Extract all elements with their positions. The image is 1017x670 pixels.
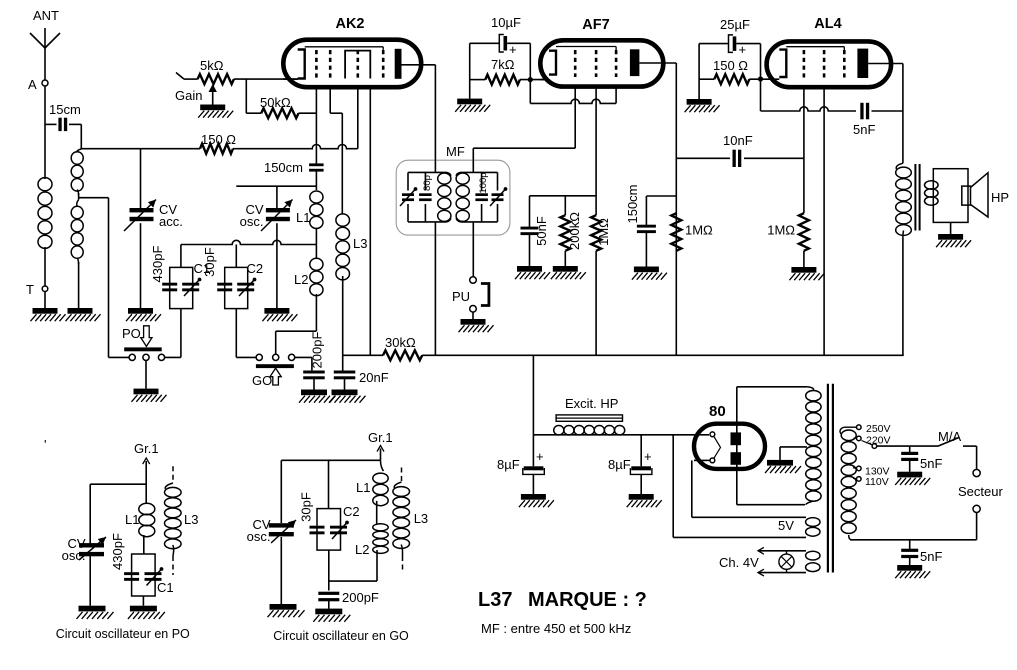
svg-text:5nF: 5nF: [920, 456, 942, 471]
svg-text:10nF: 10nF: [723, 133, 753, 148]
svg-text:8µF: 8µF: [497, 457, 520, 472]
svg-text:430pF: 430pF: [150, 246, 165, 283]
svg-text:L37: L37: [478, 589, 512, 611]
svg-text:AL4: AL4: [814, 16, 841, 32]
svg-text:1MΩ: 1MΩ: [685, 223, 713, 238]
svg-text:acc.: acc.: [159, 214, 183, 229]
svg-text:': ': [44, 437, 46, 452]
svg-text:+: +: [509, 42, 517, 57]
svg-text:+: +: [536, 449, 544, 464]
svg-text:150 Ω: 150 Ω: [201, 132, 236, 147]
svg-text:MARQUE : ?: MARQUE : ?: [528, 589, 647, 611]
svg-text:50kΩ: 50kΩ: [260, 95, 291, 110]
svg-text:PO: PO: [122, 326, 141, 341]
svg-text:L3: L3: [414, 511, 428, 526]
svg-text:osc.: osc.: [247, 529, 271, 544]
svg-text:5kΩ: 5kΩ: [200, 58, 224, 73]
svg-text:30pF: 30pF: [202, 247, 217, 277]
svg-text:150cm: 150cm: [625, 184, 640, 223]
svg-text:10µF: 10µF: [491, 15, 521, 30]
svg-text:L3: L3: [353, 236, 367, 251]
svg-text:AF7: AF7: [582, 17, 609, 33]
svg-text:250V: 250V: [866, 423, 891, 435]
svg-text:7kΩ: 7kΩ: [491, 57, 515, 72]
svg-text:GO: GO: [252, 373, 272, 388]
svg-text:Gain: Gain: [175, 88, 202, 103]
svg-text:M/A: M/A: [938, 429, 961, 444]
svg-text:Excit. HP: Excit. HP: [565, 396, 618, 411]
svg-text:C2: C2: [343, 504, 360, 519]
svg-text:1MΩ: 1MΩ: [596, 218, 611, 246]
svg-text:200pF: 200pF: [342, 590, 379, 605]
svg-text:osc.: osc.: [62, 548, 86, 563]
svg-text:25µF: 25µF: [720, 17, 750, 32]
svg-text:5nF: 5nF: [920, 549, 942, 564]
svg-text:8µF: 8µF: [608, 457, 631, 472]
svg-text:osc.: osc.: [240, 214, 264, 229]
svg-text:L1: L1: [356, 480, 370, 495]
svg-text:15cm: 15cm: [49, 102, 81, 117]
svg-text:150cm: 150cm: [264, 160, 303, 175]
svg-text:Gr.1: Gr.1: [368, 430, 393, 445]
svg-text:L1: L1: [125, 512, 139, 527]
svg-text:Circuit oscillateur en GO: Circuit oscillateur en GO: [273, 629, 409, 643]
svg-text:30pF: 30pF: [298, 492, 313, 522]
svg-text:100p: 100p: [478, 172, 489, 193]
svg-text:110V: 110V: [865, 476, 889, 488]
svg-text:L3: L3: [184, 512, 198, 527]
svg-text:L2: L2: [294, 272, 308, 287]
svg-text:200pF: 200pF: [309, 332, 324, 369]
svg-text:L1: L1: [296, 210, 310, 225]
svg-text:L2: L2: [355, 542, 369, 557]
svg-text:150 Ω: 150 Ω: [713, 58, 748, 73]
svg-text:Gr.1: Gr.1: [134, 441, 159, 456]
svg-text:1MΩ: 1MΩ: [767, 223, 795, 238]
svg-text:80p: 80p: [422, 175, 433, 191]
svg-text:80: 80: [709, 403, 726, 420]
svg-text:ANT: ANT: [33, 8, 59, 23]
svg-text:Ch. 4V: Ch. 4V: [719, 555, 759, 570]
svg-text:MF: MF: [446, 144, 465, 159]
svg-text:5V: 5V: [778, 518, 794, 533]
svg-text:T: T: [26, 282, 34, 297]
svg-text:5nF: 5nF: [853, 122, 875, 137]
svg-text:A: A: [28, 77, 37, 92]
svg-text:PU: PU: [452, 289, 470, 304]
svg-text:30kΩ: 30kΩ: [385, 335, 416, 350]
svg-text:Circuit oscillateur en PO: Circuit oscillateur en PO: [56, 627, 190, 641]
svg-text:C1: C1: [157, 580, 174, 595]
svg-text:220V: 220V: [866, 435, 891, 447]
svg-text:Secteur: Secteur: [958, 484, 1003, 499]
svg-text:AK2: AK2: [335, 16, 364, 32]
svg-text:200kΩ: 200kΩ: [567, 212, 582, 250]
svg-text:50nF: 50nF: [534, 216, 549, 246]
svg-text:C2: C2: [247, 261, 264, 276]
svg-text:HP: HP: [991, 190, 1009, 205]
svg-text:430pF: 430pF: [110, 533, 125, 570]
svg-text:20nF: 20nF: [359, 370, 389, 385]
svg-text:+: +: [644, 449, 652, 464]
svg-text:MF : entre 450 et 500 kHz: MF : entre 450 et 500 kHz: [481, 621, 631, 636]
